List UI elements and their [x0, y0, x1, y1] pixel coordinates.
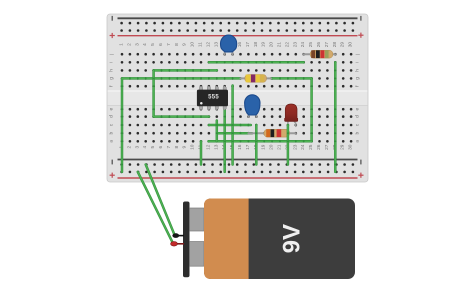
- svg-text:19: 19: [261, 42, 267, 48]
- svg-text:27: 27: [324, 42, 330, 48]
- svg-text:e: e: [109, 108, 114, 111]
- LED D1 red, legs c22 c23: [285, 104, 298, 126]
- wire W15 i28 to bottom + rail: [334, 62, 336, 172]
- svg-text:i: i: [354, 62, 360, 63]
- capacitor C1 top, legs j14 j15: [221, 35, 237, 54]
- svg-text:4: 4: [142, 146, 148, 149]
- svg-text:i: i: [108, 62, 114, 63]
- svg-text:13: 13: [213, 144, 219, 150]
- wire W5 row h: h5 to h13: [154, 69, 217, 71]
- svg-text:16: 16: [237, 42, 243, 48]
- svg-text:4: 4: [142, 43, 148, 46]
- svg-text:7: 7: [166, 146, 172, 149]
- svg-text:23: 23: [292, 144, 298, 150]
- column numbers: [119, 42, 354, 150]
- svg-text:10: 10: [190, 42, 196, 48]
- svg-text:g: g: [109, 77, 114, 80]
- svg-text:21: 21: [277, 144, 283, 150]
- wire W14 c22 to bottom - rail: [287, 125, 289, 165]
- svg-text:5: 5: [150, 146, 156, 149]
- svg-text:h: h: [354, 69, 360, 72]
- op-amp/timer U1 555 DIP-8: [197, 86, 228, 111]
- wire W10 col13 short vertical: [216, 121, 218, 142]
- svg-text:22: 22: [284, 42, 290, 48]
- svg-text:a: a: [109, 140, 114, 143]
- svg-text:25: 25: [308, 42, 314, 48]
- svg-text:16: 16: [237, 144, 243, 150]
- resistor R1 1k row j: [304, 50, 336, 58]
- svg-text:1: 1: [119, 43, 125, 46]
- wire W12 f15 to bottom - rail: [232, 86, 234, 165]
- svg-text:30: 30: [348, 42, 354, 48]
- rail symbols: [111, 16, 113, 21]
- wire W16 bottom - rail to battery negative: [146, 165, 175, 235]
- svg-text:9V: 9V: [279, 224, 306, 253]
- svg-text:24: 24: [300, 42, 306, 48]
- svg-text:12: 12: [205, 42, 211, 48]
- svg-text:e: e: [355, 108, 360, 111]
- svg-text:11: 11: [198, 42, 204, 47]
- svg-text:5: 5: [150, 43, 156, 46]
- svg-text:g: g: [355, 77, 360, 80]
- wire W9 a11 to bottom - rail: [200, 141, 203, 164]
- wire W17 bottom + rail to battery positive: [138, 172, 173, 243]
- svg-text:b: b: [354, 132, 360, 135]
- resistor R3 row b: [248, 129, 295, 137]
- svg-text:2: 2: [126, 43, 132, 46]
- svg-text:26: 26: [316, 144, 322, 150]
- battery BT1 9V: [183, 199, 355, 280]
- svg-text:13: 13: [213, 42, 219, 48]
- main grid holes: [121, 53, 353, 143]
- bottom negative rail line: [118, 159, 358, 161]
- resistor R2 row g: [241, 75, 271, 83]
- rail holes: [120, 22, 354, 173]
- wire W7 row c: c12 to c17: [209, 124, 251, 126]
- svg-text:d: d: [108, 115, 114, 118]
- svg-text:8: 8: [174, 43, 180, 46]
- svg-text:8: 8: [174, 146, 180, 149]
- svg-text:6: 6: [158, 43, 164, 46]
- svg-text:9: 9: [182, 43, 188, 46]
- svg-text:28: 28: [332, 42, 338, 48]
- svg-text:29: 29: [340, 42, 346, 48]
- battery negative terminal snap: [172, 233, 184, 238]
- svg-text:h: h: [108, 69, 114, 72]
- row letters: [108, 54, 360, 143]
- svg-text:6: 6: [158, 146, 164, 149]
- svg-text:2: 2: [126, 146, 132, 149]
- svg-text:26: 26: [316, 42, 322, 48]
- svg-text:17: 17: [245, 42, 251, 48]
- svg-text:25: 25: [308, 144, 314, 150]
- svg-text:555: 555: [208, 94, 219, 100]
- svg-text:10: 10: [190, 144, 196, 150]
- svg-text:j: j: [354, 54, 360, 56]
- top positive rail line: [118, 35, 358, 37]
- wire W11 e14 to bottom + rail: [224, 109, 226, 172]
- wire W3 row a: a12 to a25: [209, 140, 312, 142]
- svg-text:27: 27: [324, 144, 330, 150]
- svg-text:20: 20: [269, 144, 275, 150]
- svg-text:24: 24: [300, 144, 306, 150]
- svg-text:19: 19: [261, 144, 267, 150]
- svg-text:3: 3: [134, 146, 140, 149]
- wire W2 g20 to g25, down col25 to a25: [271, 77, 313, 141]
- wire W4 row i: i12 to i24: [209, 61, 304, 63]
- svg-text:a: a: [355, 140, 360, 143]
- wire W8 row b: b13 to b17: [217, 132, 252, 134]
- svg-text:d: d: [354, 115, 360, 118]
- wire W1 bottom + rail col1 up to row g, right to g16: [121, 77, 240, 171]
- svg-text:17: 17: [245, 144, 251, 150]
- capacitor C2 middle, legs d17 d18: [245, 95, 260, 117]
- breadboard center channel: [108, 91, 368, 106]
- svg-text:12: 12: [205, 144, 211, 150]
- breadboard body: [107, 14, 368, 182]
- svg-text:j: j: [108, 54, 114, 56]
- svg-text:21: 21: [277, 42, 283, 48]
- svg-text:29: 29: [340, 144, 346, 150]
- svg-text:30: 30: [348, 144, 354, 150]
- svg-text:3: 3: [134, 43, 140, 46]
- bottom positive rail line: [118, 177, 358, 179]
- svg-text:9: 9: [182, 146, 188, 149]
- svg-text:18: 18: [253, 42, 259, 48]
- top negative rail line: [118, 17, 358, 19]
- wire W6 h5 down to d5, right to d12: [153, 70, 209, 117]
- wire W13 c18 to bottom - rail: [255, 125, 257, 165]
- svg-text:20: 20: [269, 42, 275, 48]
- svg-text:23: 23: [292, 42, 298, 48]
- svg-text:7: 7: [166, 43, 172, 46]
- svg-text:b: b: [108, 132, 114, 135]
- battery positive terminal snap: [171, 242, 184, 247]
